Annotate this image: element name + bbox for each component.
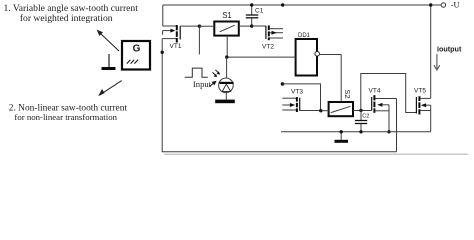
switch S1 (199, 11, 251, 57)
node dot C2 bottom (359, 130, 362, 133)
ground (annotation) (102, 54, 116, 70)
sawtooth symbol (127, 60, 138, 64)
capacitor C2 (355, 111, 369, 132)
svg-text:for weighted integration: for weighted integration (20, 13, 113, 24)
transistor VT5 (414, 87, 431, 131)
svg-text:C1: C1 (255, 7, 264, 14)
wire VT5 drain to rail (430, 5, 432, 98)
node on left border (161, 51, 164, 54)
switch S2 (321, 89, 372, 116)
svg-text:VT2: VT2 (262, 44, 274, 51)
capacitor C1 (246, 5, 264, 26)
photodiode VD (213, 57, 235, 103)
scan shadow line (bottom) (164, 153, 468, 155)
svg-text:Ioutput: Ioutput (437, 44, 462, 53)
annotation arrow 2 (98, 81, 122, 97)
light arrows (213, 70, 219, 75)
Ioutput label + arrow (434, 44, 462, 70)
node dot C1 top (250, 3, 253, 6)
node dot S2 left (319, 109, 322, 112)
transistor VT2 (262, 25, 283, 50)
svg-text:DD1: DD1 (298, 33, 311, 39)
svg-text:for non-linear transformation: for non-linear transformation (14, 112, 117, 122)
svg-text:S1: S1 (222, 11, 232, 20)
svg-text:-U: -U (451, 0, 461, 9)
svg-text:VT4: VT4 (369, 87, 381, 94)
node dot on rail above VT2 (281, 3, 284, 6)
annotation arrow 1 (97, 30, 119, 51)
terminal -U (441, 0, 460, 9)
transistor VT3 (282, 89, 320, 112)
svg-text:VT1: VT1 (170, 43, 182, 50)
node dot rail right (429, 3, 432, 6)
annotation text 1 (4, 3, 139, 24)
transistor VT1 (162, 25, 199, 50)
generator G box (122, 41, 150, 70)
node dot ground (340, 130, 343, 133)
input pulse annotation (185, 68, 217, 89)
wire VT4 drain to bottom rail (396, 99, 398, 152)
node dot C1 bottom (250, 24, 253, 27)
node dot (dangling junction above VT3) (281, 82, 285, 86)
node dot VT4 source on bottom line (387, 130, 390, 133)
annotation text 2 (9, 103, 128, 122)
logic element DD1 (227, 33, 341, 102)
wire from C2 node up and over to VT5 gate (361, 74, 417, 113)
wire C1 to VT2 gate (252, 25, 266, 27)
svg-text:Input: Input (193, 79, 212, 89)
node dot S1-control / DD1 input (225, 55, 228, 58)
wire left border and bottom rail (162, 39, 396, 152)
wire to S2 (283, 84, 321, 111)
bottom distribution line (281, 131, 431, 133)
node dot S2 right / C2 (359, 109, 362, 112)
wire top supply rail (163, 5, 441, 26)
svg-text:VT3: VT3 (291, 89, 303, 96)
svg-text:S2: S2 (343, 89, 352, 98)
svg-text:C2: C2 (362, 113, 369, 119)
svg-text:G: G (133, 43, 141, 54)
transistor VT4 (369, 87, 397, 131)
stub below node A (198, 26, 200, 54)
node A (gate VT1 / S1) (198, 25, 201, 28)
ground (circuit) (335, 132, 349, 143)
svg-text:VT5: VT5 (414, 87, 426, 94)
